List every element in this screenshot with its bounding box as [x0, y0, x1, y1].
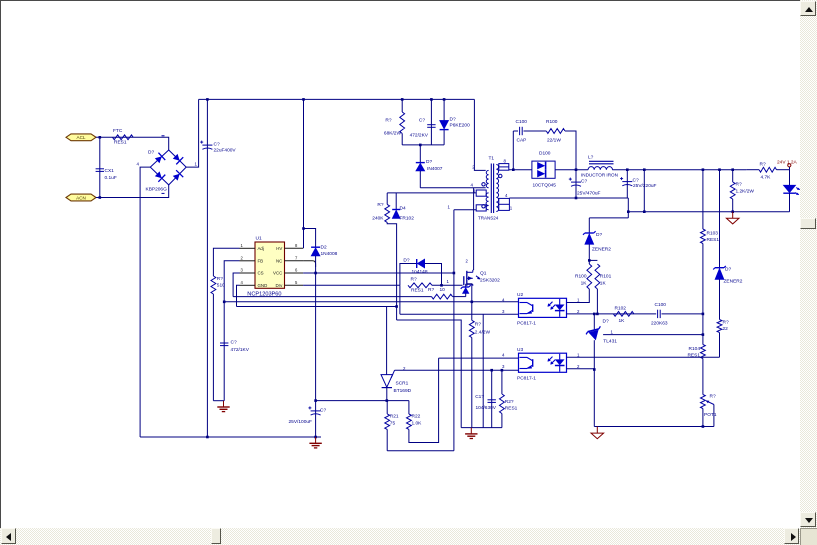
svg-text:R100: R100	[546, 119, 558, 125]
junction rail/clamp-D	[443, 98, 446, 101]
shunt regulator TL431	[585, 326, 617, 344]
svg-text:R103: R103	[707, 230, 719, 236]
wire bridge plus up	[186, 99, 198, 167]
wire ACN to bridge AC2	[96, 185, 169, 198]
junction zener/R100-R101	[588, 259, 591, 262]
wire C470 branch	[575, 170, 577, 198]
wire rail step down	[627, 198, 629, 218]
junction source/FB line	[471, 301, 474, 304]
wire sec snubber left top	[513, 130, 518, 132]
wire drain node to T1 pin4	[420, 187, 485, 189]
wire U3 pin1 line	[567, 356, 720, 358]
svg-text:P6KE200: P6KE200	[450, 123, 471, 129]
svg-text:FB: FB	[258, 258, 264, 263]
svg-text:T1: T1	[489, 156, 495, 162]
wire top HV rail	[199, 98, 475, 100]
capacitor C? 22uF/400V	[200, 141, 236, 154]
wire U1 pin7 to D2 branch	[303, 261, 316, 267]
junction R101/pin2 line	[596, 313, 599, 316]
svg-text:INDUCTOR IRON: INDUCTOR IRON	[581, 173, 618, 178]
wire bridge minus down left rail	[140, 167, 150, 437]
wire SCR bottom rail	[387, 450, 454, 452]
svg-text:3: 3	[502, 309, 505, 314]
svg-text:1: 1	[195, 162, 198, 167]
wire divider mid	[702, 314, 704, 345]
ground under U1	[217, 401, 229, 412]
wire R101/U2 pin2 node	[567, 289, 598, 314]
svg-text:6: 6	[295, 268, 298, 273]
svg-text:KBP206G: KBP206G	[146, 187, 168, 193]
svg-text:RES1: RES1	[707, 237, 720, 243]
wire clamp R top	[401, 99, 403, 112]
svg-text:C?: C?	[214, 142, 220, 148]
junction bleeder/out-return	[731, 210, 734, 213]
svg-text:R?: R?	[710, 393, 716, 399]
junction VCC cap bottom rail	[314, 436, 317, 439]
capacitor C100 220K63	[651, 302, 668, 327]
wire T1 pin8 to D100	[509, 169, 532, 171]
wire zener2 to R22	[719, 280, 721, 320]
wire gate to Q1	[432, 284, 463, 286]
svg-text:IN4007: IN4007	[427, 166, 443, 172]
junction out/R103	[702, 168, 705, 171]
svg-text:R?: R?	[385, 118, 391, 124]
resistor R? RES1 gate	[408, 276, 432, 293]
wire R21 top	[386, 401, 388, 414]
junction out/mid-vert bottom	[643, 210, 646, 213]
wire zener1 bottom	[588, 244, 590, 264]
wire U1 pin1 to R510	[213, 248, 239, 276]
svg-text:D?: D?	[450, 117, 456, 123]
svg-text:R101: R101	[600, 274, 612, 280]
junction TL431/pin2 line	[593, 313, 596, 316]
svg-text:BT169D: BT169D	[394, 388, 412, 394]
junction pin3wire/C104	[490, 369, 493, 372]
svg-text:R104: R104	[689, 346, 701, 352]
svg-text:4: 4	[505, 193, 508, 198]
resistor R? 68K/2W	[384, 112, 405, 137]
svg-text:R?: R?	[377, 202, 383, 208]
svg-text:RES1: RES1	[411, 288, 424, 294]
svg-text:10: 10	[440, 287, 446, 293]
wire U1 pin4 down	[237, 285, 240, 306]
svg-text:FR102: FR102	[400, 216, 415, 222]
junction ref/divider	[702, 333, 705, 336]
svg-text:RES1: RES1	[505, 405, 518, 411]
resistor R? 10	[428, 287, 453, 299]
svg-text:10CTQ045: 10CTQ045	[533, 183, 557, 189]
svg-text:2: 2	[466, 259, 469, 264]
svg-text:22/1W: 22/1W	[547, 138, 561, 144]
transformer T1 TRANS24	[448, 156, 513, 221]
port ACN	[66, 194, 96, 201]
junction out/bleeder	[731, 168, 734, 171]
diode D? ZENER2 feedback	[713, 266, 743, 284]
svg-text:8: 8	[504, 158, 507, 163]
potentiometer POT1 wiper	[706, 401, 714, 427]
svg-text:R2?: R2?	[505, 399, 514, 405]
wire output mid vertical	[643, 170, 645, 212]
ground output (earth)	[726, 212, 739, 224]
wire C100 to divider	[662, 313, 703, 315]
capacitor C? 25V/220uF	[620, 177, 656, 189]
wire T1 pin4 to Q1 drain	[473, 188, 475, 270]
wire T1 pin1 aux	[454, 209, 476, 211]
wire SCR gate to opto U3 pin3	[395, 369, 519, 371]
svg-text:D4: D4	[400, 206, 406, 212]
svg-text:Adj: Adj	[258, 246, 264, 251]
junction clamp bottom	[419, 144, 422, 147]
resistor R104 RES1	[687, 345, 705, 359]
resistor R? 240K	[372, 202, 389, 222]
svg-text:1: 1	[611, 329, 614, 334]
junction TL431 anode/U3 pin2	[593, 368, 596, 371]
node 24V output	[788, 164, 791, 170]
wire R? RES1 branch bottom	[501, 414, 503, 428]
wire CX1 branch	[99, 137, 101, 197]
wire zener2 top from output	[719, 170, 721, 268]
svg-text:2: 2	[577, 309, 580, 314]
svg-text:SCR1: SCR1	[396, 381, 409, 387]
svg-text:R?: R?	[475, 322, 481, 328]
wire U3 pin2 to TL431 anode	[567, 368, 595, 370]
diode D? ZENER2 secondary	[583, 231, 611, 252]
wire TL431 ref	[603, 334, 703, 336]
resistor R100 22/1W	[546, 119, 565, 144]
svg-text:C?: C?	[633, 178, 639, 184]
inductor L? IRON	[581, 154, 618, 177]
wire Q1 source down	[471, 284, 473, 321]
junction rail/bulk-cap	[206, 98, 209, 101]
svg-text:1K: 1K	[581, 280, 588, 286]
svg-text:1: 1	[510, 206, 513, 211]
wire clamp D branch	[443, 99, 445, 144]
wire 4.7K to 24V node	[777, 169, 790, 171]
wire bulk cap branch down to bottom rail	[206, 99, 208, 437]
diode D100 10CTQ045	[532, 151, 556, 189]
svg-text:Q1: Q1	[480, 271, 487, 277]
svg-text:2SK3202: 2SK3202	[480, 278, 500, 284]
resistor R? 1.2K/2W	[730, 181, 754, 199]
svg-text:68K/2W: 68K/2W	[384, 131, 402, 137]
net label 24V 1.2A	[777, 159, 798, 165]
svg-text:TRANS24: TRANS24	[478, 216, 499, 221]
diode D2 1N4008	[311, 245, 338, 258]
junction SCR cathode	[386, 399, 389, 402]
svg-text:25V/470uF: 25V/470uF	[577, 190, 601, 196]
wire loop-left down	[399, 285, 401, 314]
wire R22 bottom to U3 pin4 net	[409, 358, 439, 442]
svg-text:NC: NC	[276, 258, 282, 263]
svg-text:ACL: ACL	[77, 135, 86, 140]
svg-text:GND: GND	[258, 283, 268, 288]
junction VCC wire	[314, 272, 317, 275]
svg-text:R102: R102	[615, 305, 627, 311]
svg-text:25V/100uF: 25V/100uF	[289, 419, 313, 425]
svg-text:U1: U1	[256, 235, 262, 241]
wire bleeder top	[732, 170, 734, 182]
wire LED cathode	[789, 193, 791, 212]
svg-text:D?: D?	[603, 319, 609, 325]
diode D4 FR102	[392, 206, 414, 222]
wire Drv line	[303, 284, 400, 286]
wire FB line to opto U2 pin4	[224, 301, 518, 303]
svg-text:Drv: Drv	[275, 283, 283, 288]
svg-text:R?: R?	[428, 287, 434, 293]
wire POT1 bottom	[702, 409, 704, 427]
junction VCC line/pin1 net	[453, 272, 456, 275]
svg-text:4: 4	[471, 183, 474, 188]
resistor R? 22	[717, 319, 729, 332]
wire HV jog to D2	[304, 229, 316, 248]
resistor POT1	[701, 393, 717, 418]
junction FB line	[223, 301, 226, 304]
resistor R? RES1 sec	[500, 394, 518, 414]
wire C104 branch	[491, 370, 493, 427]
svg-text:1N4008: 1N4008	[321, 251, 338, 257]
op-amp U1 NCP1203P60	[240, 235, 304, 297]
junction out/mid-vert top	[643, 168, 646, 171]
port ACL	[66, 134, 96, 141]
wire SCR cathode to VCC cap top	[316, 400, 409, 402]
wire sec snubber right vert	[565, 131, 576, 170]
junction step/out-return	[627, 210, 630, 213]
wire CS-R bottom to bus	[471, 338, 473, 428]
capacitor C? 472/2KV	[410, 118, 436, 139]
wire TL431 cathode	[593, 314, 595, 330]
resistor R101 1K	[595, 264, 612, 289]
svg-text:4.7K: 4.7K	[761, 175, 772, 181]
wire R510 bottom to gnd connector	[212, 294, 214, 401]
svg-text:C?: C?	[231, 340, 237, 346]
wire aux R top	[386, 193, 388, 205]
junction HV jog	[302, 227, 305, 230]
svg-text:PC817-1: PC817-1	[517, 321, 536, 327]
wire clamp to blocking diode	[419, 145, 421, 163]
transistor Q1 2SK3202	[464, 259, 500, 286]
wire aux return to bus	[397, 320, 462, 428]
resistor R100 1K	[575, 264, 592, 289]
wire R22 bottom	[719, 333, 721, 358]
svg-text:U3: U3	[517, 347, 523, 353]
diode D? gate zener	[461, 285, 471, 293]
resistor R22 1.0K	[407, 414, 423, 430]
wire fb to C100	[597, 313, 656, 315]
junction ACN/CX1	[99, 196, 102, 199]
svg-text:C?: C?	[419, 118, 425, 124]
wire SCR anode	[386, 307, 388, 375]
wire sec snubber mid	[524, 130, 547, 132]
resistor R103 RES1	[701, 229, 720, 244]
ground under VCC cap	[309, 437, 321, 448]
junction aux/gnd-line	[395, 305, 398, 308]
wire R100/R101 top connector	[589, 259, 597, 261]
svg-text:R?: R?	[736, 181, 742, 187]
junction divider/fb	[702, 313, 705, 316]
svg-text:3: 3	[241, 268, 244, 273]
resistor R102 1K	[603, 305, 634, 324]
svg-text:240K: 240K	[372, 216, 384, 222]
junction gnd rail/POT bottom	[702, 425, 705, 428]
wire U1 pin8 HV to rail	[303, 99, 305, 248]
opto U3 PC817-1	[502, 347, 580, 381]
svg-text:8: 8	[295, 243, 298, 248]
svg-text:24V 1.2A: 24V 1.2A	[777, 159, 798, 165]
wire sec snubber left vert	[512, 131, 514, 170]
svg-text:2: 2	[241, 255, 244, 260]
wire bleeder bottom	[732, 199, 734, 212]
wire CS line left	[233, 296, 431, 298]
wire zener1 top	[588, 218, 590, 233]
wire gnd connector	[213, 400, 224, 402]
wire U2 pin3 net down to bus	[482, 314, 484, 427]
svg-text:4: 4	[241, 280, 244, 285]
wire secondary bottom rail	[509, 197, 628, 199]
wire secondary ground rail	[594, 426, 714, 428]
bridge rectifier D? KBP206G	[137, 136, 198, 194]
wire U1 pin3 down	[233, 273, 239, 297]
svg-text:1: 1	[241, 243, 244, 248]
svg-text:D?: D?	[403, 258, 409, 264]
svg-text:C?: C?	[320, 408, 326, 414]
svg-text:2: 2	[577, 364, 580, 369]
svg-text:4: 4	[502, 352, 505, 357]
wire primary bottom rail	[140, 436, 321, 438]
wire aux pair bottom down	[387, 222, 396, 320]
svg-text:R?: R?	[411, 276, 417, 282]
junction out/C220	[626, 168, 629, 171]
svg-text:R21: R21	[390, 414, 399, 420]
svg-text:22uF400V: 22uF400V	[214, 148, 237, 154]
ground secondary (earth)	[591, 427, 604, 439]
wire zener top stub	[465, 284, 467, 287]
wire CS line right	[453, 296, 466, 298]
wire clamp R bottom	[401, 133, 403, 145]
svg-text:0.1uF: 0.1uF	[105, 175, 117, 181]
wire output top	[612, 169, 746, 171]
svg-text:4: 4	[137, 162, 140, 167]
opto U2 PC817-1	[502, 292, 580, 326]
wire C220 branch	[626, 170, 628, 198]
junction rail/C470	[575, 197, 578, 200]
wire U3 pin4 line	[439, 357, 519, 359]
junction pin3wire/R	[501, 369, 504, 372]
svg-text:472/2KV: 472/2KV	[410, 133, 429, 139]
svg-text:220K63: 220K63	[651, 320, 668, 326]
junction rail/clamp-C	[430, 98, 433, 101]
wire R100 to U2 pin1	[567, 289, 590, 303]
svg-text:CS: CS	[258, 271, 264, 276]
svg-text:1: 1	[448, 204, 451, 209]
wire output bottom	[628, 211, 789, 213]
capacitor CX1	[96, 168, 117, 181]
wire R103 top from output	[702, 170, 704, 229]
resistor R? 510	[211, 276, 225, 294]
svg-text:C100: C100	[516, 119, 528, 125]
svg-text:ZENER2: ZENER2	[724, 278, 743, 284]
thyristor SCR1 BT169D	[381, 366, 412, 394]
wire zener to CS line	[465, 294, 467, 297]
wire T1 pin3 aux	[387, 192, 476, 194]
junction out/zener2	[718, 168, 721, 171]
wire R22 top	[408, 401, 410, 414]
wire R? RES1 branch top	[501, 370, 503, 394]
capacitor C100 CAP	[516, 119, 528, 144]
svg-text:R100: R100	[575, 274, 587, 280]
wire R103 bottom	[702, 244, 704, 314]
svg-text:FTC: FTC	[113, 128, 123, 134]
junction ACL/CX1	[99, 136, 102, 139]
junction bottom rail/bulk	[206, 436, 209, 439]
svg-text:R?: R?	[760, 162, 766, 168]
wire clamp bottom connector	[402, 144, 444, 146]
wire R21 bottom	[386, 429, 388, 450]
svg-text:PC817-1: PC817-1	[517, 375, 536, 381]
svg-text:POT1: POT1	[704, 412, 717, 418]
svg-text:1.2K/2W: 1.2K/2W	[736, 188, 755, 194]
wire R104 to POT1	[702, 359, 704, 395]
svg-text:RES1: RES1	[114, 140, 127, 146]
LED D? output	[783, 185, 795, 193]
wire gate-loop node to U2 pin3	[400, 313, 519, 315]
svg-text:D100: D100	[539, 151, 551, 157]
wire D4 top	[395, 193, 397, 210]
svg-text:3: 3	[502, 364, 505, 369]
junction rail/HV	[302, 98, 305, 101]
svg-text:1K: 1K	[619, 318, 626, 324]
diode D? IN4007	[416, 159, 443, 172]
svg-text:2.4/2W: 2.4/2W	[475, 330, 491, 336]
svg-text:1: 1	[577, 298, 580, 303]
svg-text:5: 5	[295, 280, 298, 285]
wire D100 to inductor	[555, 169, 588, 171]
junction gate node 1	[440, 279, 449, 287]
svg-text:ACN: ACN	[76, 195, 86, 200]
junction VCC cap top	[314, 399, 317, 402]
svg-text:R22: R22	[412, 414, 421, 420]
wire gate loop top	[400, 264, 442, 286]
svg-text:22: 22	[723, 326, 729, 332]
svg-text:D?: D?	[596, 232, 602, 238]
svg-text:1.0K: 1.0K	[412, 420, 423, 426]
svg-text:C100: C100	[655, 302, 667, 308]
ground secondary bus	[465, 428, 477, 439]
svg-text:TL431: TL431	[603, 339, 617, 345]
resistor R21 75	[385, 414, 399, 430]
svg-text:VCC: VCC	[273, 271, 282, 276]
svg-text:472/1KV: 472/1KV	[231, 347, 250, 353]
junction D100/snubber/cap	[575, 168, 578, 171]
svg-text:CX1: CX1	[105, 168, 115, 174]
svg-text:D?: D?	[426, 159, 432, 165]
svg-text:1n4148: 1n4148	[412, 269, 428, 275]
svg-text:7: 7	[295, 255, 298, 260]
resistor R? 4.7K	[759, 162, 776, 181]
capacitor C? 25V/100uF	[289, 406, 327, 424]
svg-text:1: 1	[447, 279, 450, 284]
svg-text:R?: R?	[723, 319, 729, 325]
svg-text:1: 1	[577, 352, 580, 357]
wire rail to T1 pin2	[474, 99, 485, 170]
wire blocking diode to drain node	[419, 171, 421, 188]
svg-text:D2: D2	[321, 245, 327, 251]
svg-text:1K: 1K	[600, 280, 607, 286]
capacitor C? 104/630V	[475, 394, 497, 411]
svg-text:U2: U2	[517, 292, 523, 298]
svg-text:R?: R?	[217, 276, 223, 282]
wire T1 pin1 net down	[453, 210, 455, 451]
wire GND line to aux return	[237, 306, 397, 308]
